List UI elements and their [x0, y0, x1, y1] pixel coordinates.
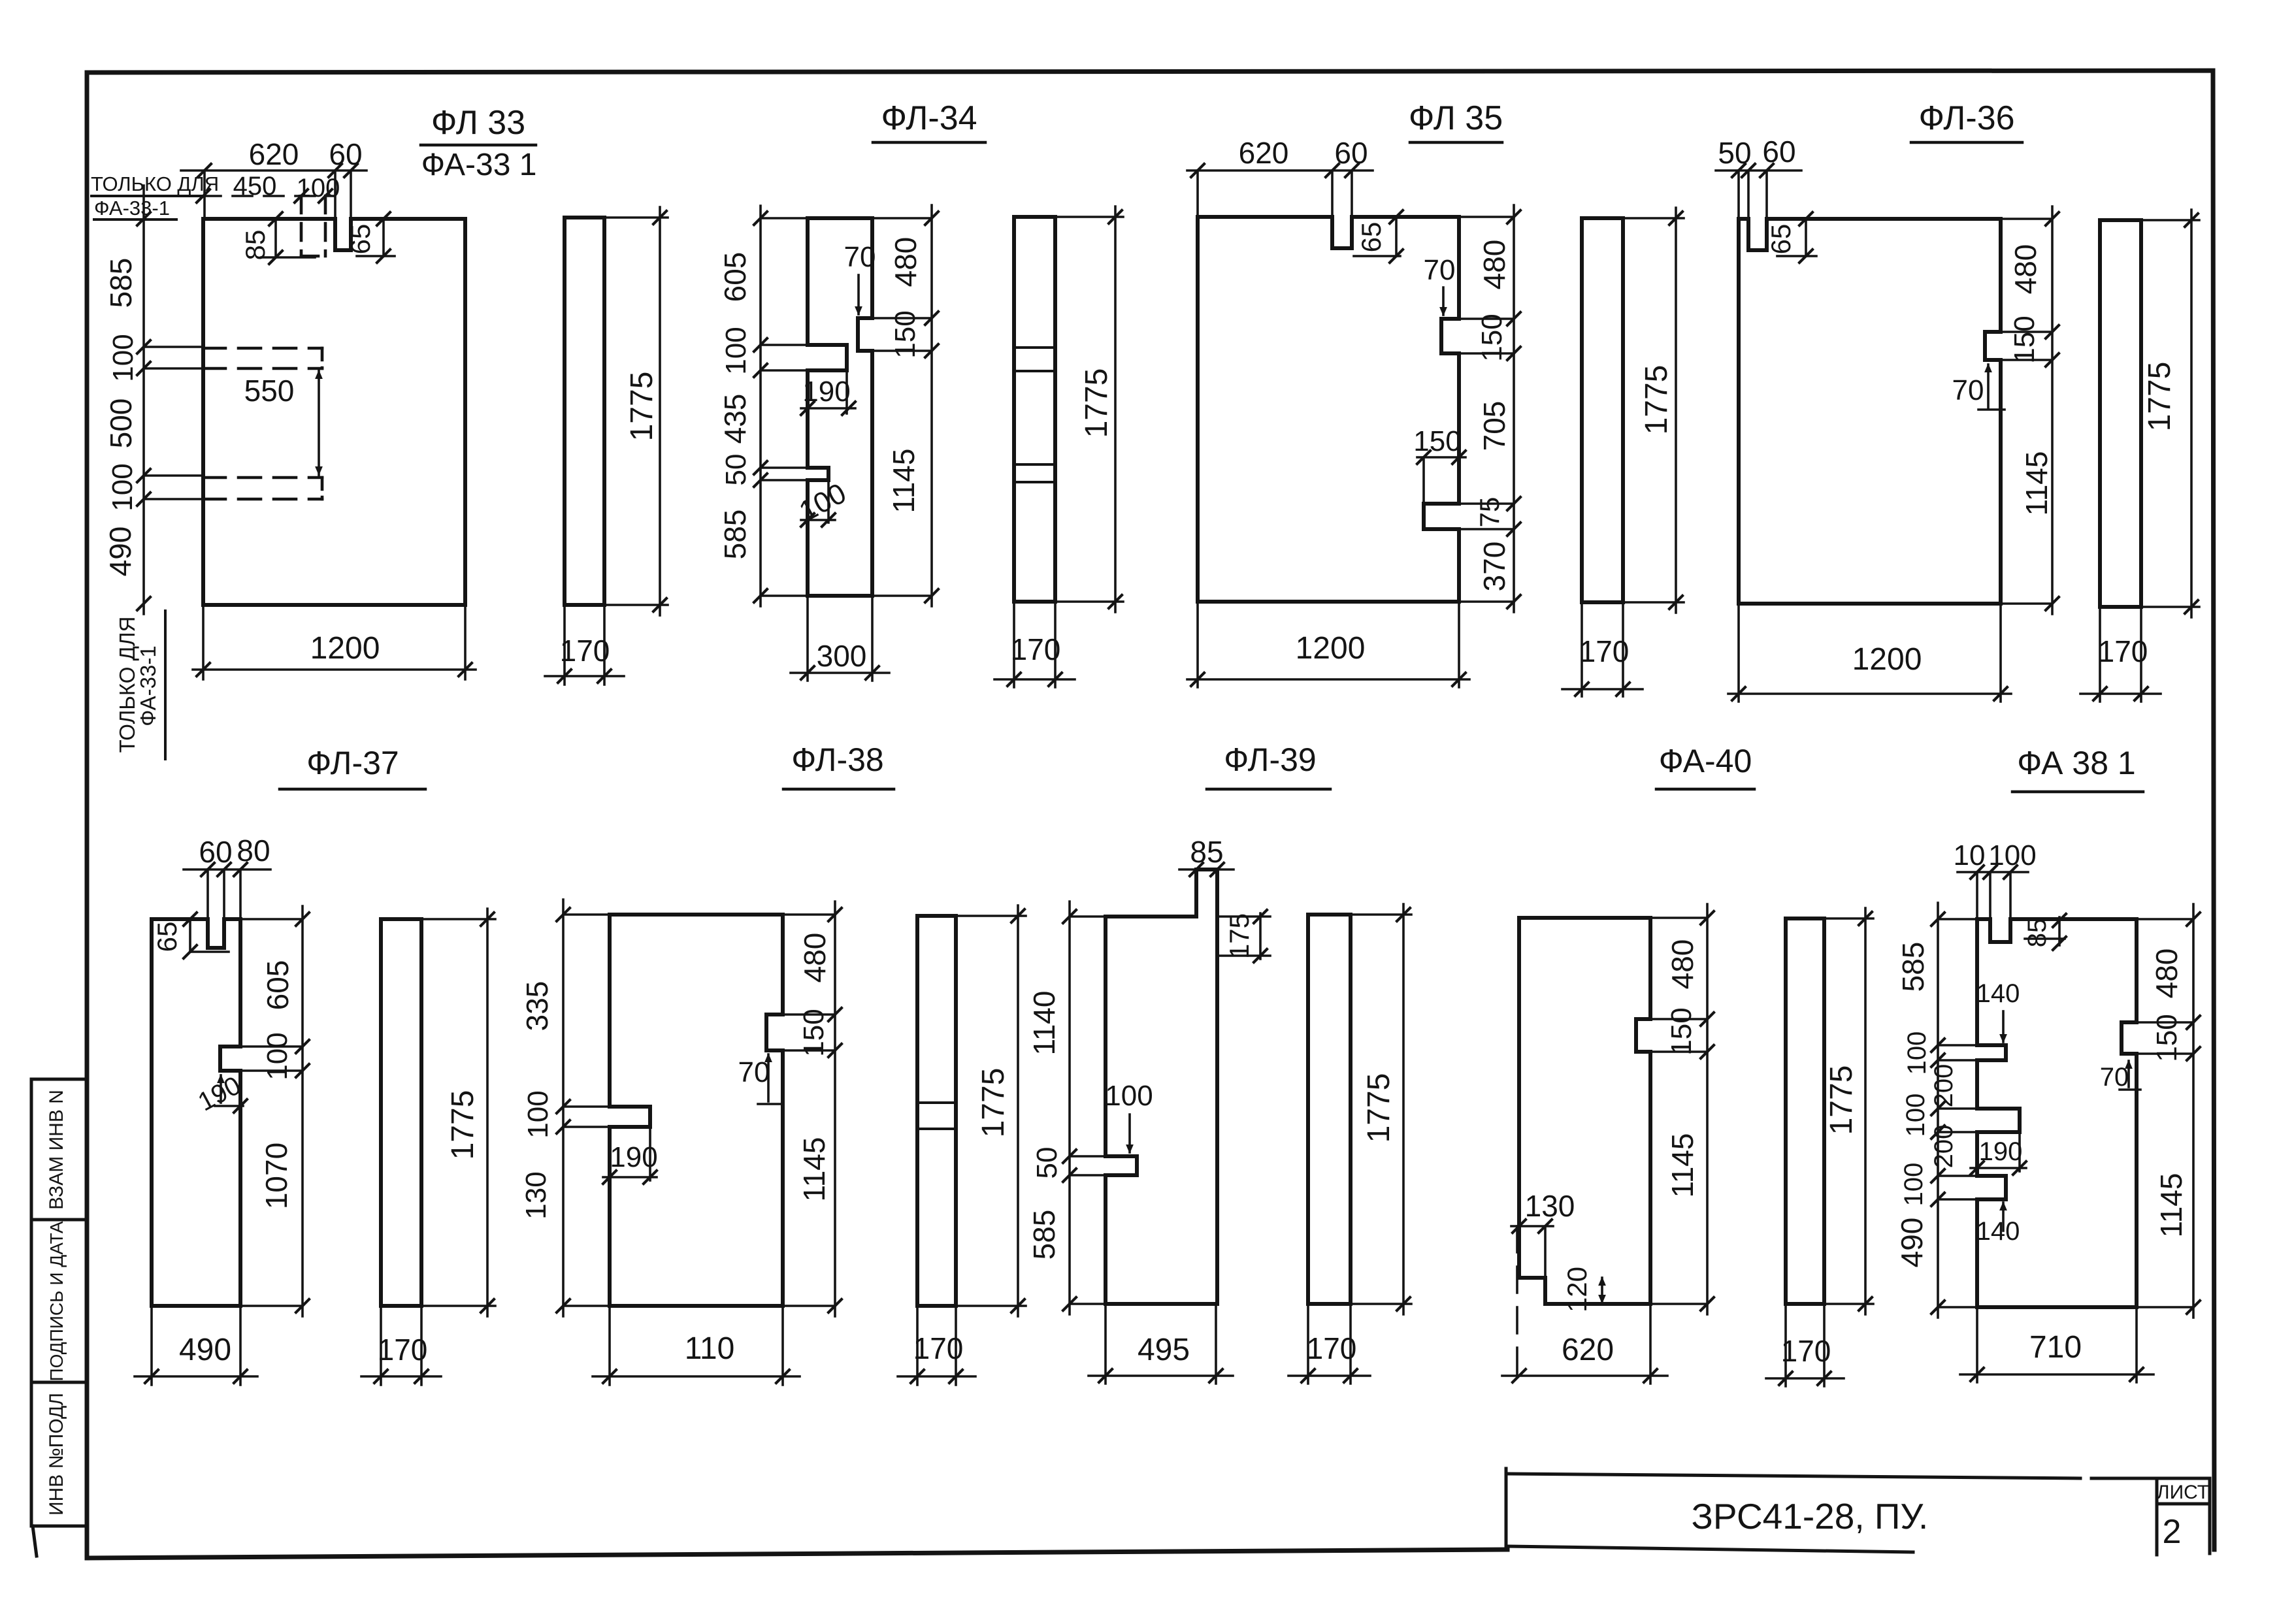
dim text 60 (ФЛ-37) — [199, 835, 232, 869]
dim text 100c (ФА-38-1) — [1899, 1163, 1928, 1207]
dim text 480 (ФА-40) — [1665, 939, 1699, 990]
dim text 10 (ФА-38-1) — [1954, 839, 1986, 871]
panel ФЛ-38 front outline — [610, 915, 783, 1306]
dim 130 (ФА-40 corner step) — [1511, 1189, 1575, 1278]
dim chain right (ФЛ-38): 480/150/1145 — [766, 901, 842, 1316]
svg-text:65: 65 — [1765, 224, 1796, 255]
dim 450/100 line (ФЛ-33) — [197, 189, 335, 203]
svg-text:ФА-33-1: ФА-33-1 — [136, 645, 160, 726]
svg-text:1145: 1145 — [2154, 1173, 2188, 1238]
title ФЛ-37 — [280, 745, 425, 789]
svg-text:300: 300 — [817, 639, 867, 673]
side view of ФЛ-36 — [2100, 220, 2141, 607]
title ФЛ-35 — [1409, 99, 1503, 142]
dim 65 (ФЛ-37) — [152, 913, 229, 958]
dim text 1145 (ФА-38-1) — [2154, 1173, 2188, 1238]
dim 170 (S7) — [1288, 1304, 1370, 1384]
panel ФЛ-39 front outline — [1106, 869, 1217, 1304]
svg-text:100: 100 — [1903, 1031, 1931, 1075]
dim text 1140 (ФЛ-39) — [1027, 991, 1061, 1056]
svg-text:620: 620 — [1239, 136, 1289, 170]
svg-text:ПОДПИСЬ И ДАТА: ПОДПИСЬ И ДАТА — [46, 1221, 67, 1381]
svg-text:100: 100 — [720, 327, 752, 374]
panel ФЛ-33 front outline — [203, 219, 465, 605]
dim text 705 (ФЛ-35) — [1477, 401, 1511, 451]
dim text 480 (ФЛ-35) — [1477, 240, 1511, 290]
dim 110 (ФЛ-38 bottom) — [593, 1306, 800, 1385]
svg-text:75: 75 — [1474, 497, 1505, 528]
dim text 100 (ФЛ-37) — [261, 1032, 293, 1080]
svg-text:100: 100 — [1105, 1080, 1153, 1112]
side view of ФЛ-38 — [917, 916, 956, 1306]
side view of ФЛ-33 (170 wide) — [565, 218, 604, 605]
svg-text:60: 60 — [199, 835, 232, 869]
svg-text:130: 130 — [1525, 1189, 1575, 1223]
dim text 60 (ФЛ-33) — [329, 137, 362, 171]
svg-text:100: 100 — [1899, 1163, 1928, 1207]
svg-text:150: 150 — [1476, 314, 1508, 361]
dim text 605 (ФЛ-37) — [261, 960, 295, 1011]
svg-text:1775: 1775 — [2142, 362, 2177, 432]
svg-text:585: 585 — [1896, 942, 1930, 992]
svg-text:480: 480 — [2150, 949, 2184, 999]
svg-text:100: 100 — [1901, 1094, 1930, 1137]
svg-text:ФЛ 35: ФЛ 35 — [1409, 99, 1503, 137]
svg-text:620: 620 — [1562, 1333, 1614, 1367]
title ФЛ-34 — [873, 99, 985, 142]
dim text 100 (ФА-38-1) — [1988, 839, 2036, 871]
svg-text:500: 500 — [104, 398, 138, 449]
svg-text:170: 170 — [1011, 632, 1061, 666]
svg-text:480: 480 — [889, 237, 923, 287]
svg-text:1775: 1775 — [1639, 365, 1674, 435]
svg-text:480: 480 — [2008, 244, 2042, 295]
dim text 130 (ФЛ-38) — [520, 1171, 552, 1219]
dim chain left (ФЛ-33): 585/100/500/100/490 — [137, 186, 203, 614]
dim 620/60 line (ФЛ-33 top) — [181, 164, 367, 219]
dim chain right (ФЛ-35): 480/150/705/75/370 — [1424, 205, 1520, 612]
dim text 585 (ФА-38-1) — [1896, 942, 1930, 992]
dim 550 between slots (ФЛ-33) — [244, 370, 323, 476]
title ФА-40 — [1656, 743, 1754, 789]
panel ФЛ-35 front outline — [1198, 217, 1459, 602]
dim text 480 (ФЛ-38) — [798, 933, 832, 983]
dim text 435 (ФЛ-34) — [718, 394, 752, 444]
svg-text:70: 70 — [1424, 254, 1456, 286]
title block left tick — [1505, 1469, 1508, 1548]
svg-text:1775: 1775 — [1824, 1065, 1859, 1135]
svg-text:60: 60 — [1334, 136, 1368, 170]
svg-text:150: 150 — [1413, 425, 1461, 457]
panel ФЛ-33 dashed variant notch (ФА-33-1) — [301, 196, 325, 256]
svg-text:ЛИСТ: ЛИСТ — [2157, 1482, 2209, 1503]
svg-text:100: 100 — [1988, 839, 2036, 871]
svg-text:60: 60 — [329, 137, 362, 171]
dim 150 (ФЛ-35 lower notch) — [1413, 425, 1466, 504]
leader 100 (ФЛ-39) — [1105, 1080, 1153, 1154]
svg-text:1775: 1775 — [446, 1090, 480, 1160]
dim text 80 (ФЛ-37) — [237, 834, 270, 868]
dim chain left (ФЛ-39): 1140/50/585 — [1063, 901, 1106, 1314]
dim chain left (ФА-38-1): 585/100/200/100/200/100/490 — [1931, 903, 1977, 1318]
svg-text:ИНВ №ПОДЛ: ИНВ №ПОДЛ — [46, 1393, 67, 1516]
svg-text:170: 170 — [2098, 634, 2148, 668]
dim chain right (ФЛ-36): 480/150/1145 — [1985, 206, 2059, 614]
svg-text:ФЛ-39: ФЛ-39 — [1224, 741, 1316, 778]
dim 10/100 (ФА-38-1 top) — [1958, 866, 2028, 919]
svg-text:170: 170 — [1781, 1334, 1831, 1368]
dim text 490 (ФЛ-33) — [103, 527, 137, 577]
dim 190 (ФЛ-37 notch) — [193, 1071, 247, 1116]
svg-text:170: 170 — [560, 634, 610, 668]
title ФЛ-36 — [1911, 99, 2022, 142]
page bottom border — [87, 1550, 1507, 1558]
dim 65 (ФЛ-35) — [1354, 210, 1403, 263]
sheet number 2 — [2163, 1513, 2182, 1551]
dim 1775 (S2) — [1055, 206, 1123, 612]
dim text 60 (ФЛ-36) — [1762, 135, 1795, 169]
dim text 605 (ФЛ-34) — [718, 252, 752, 302]
leader 70 (ФЛ-36) — [1952, 363, 2005, 410]
dim text 100 (ФЛ-33 band2) — [107, 463, 139, 511]
svg-text:65: 65 — [1356, 222, 1386, 253]
svg-text:585: 585 — [1027, 1210, 1061, 1260]
dim text 150 (ФЛ-34) — [889, 310, 921, 358]
svg-text:ФА 38 1: ФА 38 1 — [2017, 745, 2135, 781]
dim text 490 (ФА-38-1) — [1895, 1218, 1929, 1268]
title block bottom rule — [1508, 1546, 1913, 1552]
svg-text:190: 190 — [610, 1141, 657, 1173]
dim text 335 (ФЛ-38) — [520, 981, 554, 1031]
svg-text:85: 85 — [2023, 918, 2052, 948]
dim 1200 (ФЛ-36 bottom) — [1728, 604, 2011, 702]
dim 190 (ФЛ-34 upper notch) — [801, 370, 855, 415]
panel ФА-38-1 front outline — [1977, 919, 2137, 1307]
svg-text:50: 50 — [720, 454, 752, 486]
svg-text:100: 100 — [107, 463, 139, 511]
svg-text:ФЛ 33: ФЛ 33 — [431, 104, 525, 142]
dim 85 (ФА-38-1) — [2023, 914, 2066, 950]
svg-text:150: 150 — [2008, 316, 2040, 363]
svg-text:490: 490 — [1895, 1218, 1929, 1268]
svg-text:140: 140 — [1976, 979, 2020, 1008]
dim text 100 (ФЛ-33) — [297, 174, 340, 203]
side view of ФЛ-35 — [1582, 218, 1623, 602]
svg-text:1145: 1145 — [2020, 451, 2054, 516]
dim text 585 (ФЛ-39) — [1027, 1210, 1061, 1260]
dim 620 (ФА-40 bottom) — [1502, 1226, 1667, 1384]
dim 490 (ФЛ-37 bottom) — [135, 1306, 257, 1385]
title block top rule — [1508, 1474, 2157, 1478]
svg-text:490: 490 — [179, 1333, 231, 1367]
dim 170 (S8) — [1766, 1304, 1844, 1386]
dim 170 (S1) — [545, 605, 624, 685]
svg-text:1775: 1775 — [625, 372, 659, 442]
title block text ЗРС41-28, ПУ. — [1692, 1496, 1929, 1536]
dim 170 (S2) — [994, 602, 1075, 687]
svg-text:585: 585 — [718, 510, 752, 560]
dim 175 (ФЛ-39) — [1217, 910, 1270, 962]
title ФЛ-38 — [783, 741, 894, 789]
svg-text:1145: 1145 — [797, 1137, 831, 1202]
dim text 75 (ФЛ-35) — [1474, 497, 1505, 528]
svg-text:1200: 1200 — [1296, 631, 1366, 666]
svg-text:80: 80 — [237, 834, 270, 868]
svg-text:70: 70 — [2100, 1063, 2129, 1092]
svg-text:ФЛ-34: ФЛ-34 — [881, 99, 977, 137]
dim 1775 (S7) — [1351, 904, 1411, 1314]
svg-text:170: 170 — [1579, 634, 1630, 668]
svg-text:150: 150 — [1665, 1007, 1697, 1055]
sidebar label ПОДПИСЬ И ДАТА — [46, 1221, 67, 1381]
note ТОЛЬКО ДЛЯ ФА-33-1 (rotated, bottom left) — [115, 611, 165, 759]
dim text 100b (ФА-38-1) — [1901, 1094, 1930, 1137]
dim chain left (ФЛ-34): 605/100/435/50/585 — [754, 206, 808, 606]
dim text 1145 (ФЛ-36) — [2020, 451, 2054, 516]
dim text 480 (ФЛ-36) — [2008, 244, 2042, 295]
dim text 585 (ФЛ-34) — [718, 510, 752, 560]
svg-text:100: 100 — [107, 334, 139, 382]
svg-text:140: 140 — [1976, 1217, 2020, 1246]
svg-text:150: 150 — [798, 1009, 830, 1056]
dim 65 (ФЛ-36) — [1765, 212, 1816, 263]
svg-text:550: 550 — [244, 374, 295, 408]
svg-text:50: 50 — [1031, 1147, 1063, 1179]
svg-text:100: 100 — [297, 174, 340, 203]
svg-text:50: 50 — [1718, 136, 1751, 170]
svg-text:ФЛ-38: ФЛ-38 — [791, 741, 883, 778]
title ФА-38 1 — [2012, 745, 2143, 792]
panel ФЛ-33 dashed slot band 1 — [203, 348, 322, 368]
leader 70 (ФЛ-38) — [738, 1053, 781, 1104]
svg-text:495: 495 — [1138, 1333, 1190, 1367]
dim text 480 (ФЛ-34) — [889, 237, 923, 287]
dim 1775 (S8) — [1824, 908, 1873, 1314]
dim text 60 (ФЛ-35) — [1334, 136, 1368, 170]
dim chain right (ФЛ-37): 605/100/1070 — [220, 906, 309, 1316]
svg-text:480: 480 — [1477, 240, 1511, 290]
panel ФА-40 front outline — [1519, 918, 1650, 1304]
note ТОЛЬКО ДЛЯ ФА-33-1 (top left) — [91, 172, 219, 219]
svg-text:ФЛ-37: ФЛ-37 — [306, 745, 399, 781]
dim 300 (ФЛ-34 bottom) — [791, 596, 889, 681]
leader 70 (ФЛ-35) — [1424, 254, 1456, 316]
svg-text:ВЗАМ ИНВ N: ВЗАМ ИНВ N — [46, 1090, 67, 1210]
svg-text:130: 130 — [520, 1171, 552, 1219]
svg-text:585: 585 — [104, 258, 138, 308]
dim 620/60 (ФЛ-35 top) — [1187, 164, 1373, 217]
leader 70 (ФЛ-34) — [844, 241, 876, 316]
title ФЛ-33 / ФА-33-1 — [421, 104, 536, 182]
svg-text:85: 85 — [1190, 835, 1223, 869]
dim text 150 (ФА-40) — [1665, 1007, 1697, 1055]
dim text 1070 (ФЛ-37) — [259, 1143, 293, 1209]
svg-text:480: 480 — [798, 933, 832, 983]
dim text 150 (ФЛ-35) — [1476, 314, 1508, 361]
dim text 150 (ФЛ-38) — [798, 1009, 830, 1056]
dim 120 (ФА-40 corner step) — [1562, 1267, 1606, 1312]
dim text 100a (ФА-38-1) — [1903, 1031, 1931, 1075]
svg-text:200: 200 — [1929, 1125, 1958, 1169]
dim 495 (ФЛ-39 bottom) — [1089, 1304, 1233, 1384]
dim 190 (ФА-38-1) — [1971, 1132, 2026, 1175]
dim text 50 (ФЛ-34) — [720, 454, 752, 486]
dim 65 (ФЛ-33 notch depth) — [345, 212, 395, 263]
dim text 620 (ФЛ-35) — [1239, 136, 1289, 170]
dim text 585 (ФЛ-33) — [104, 258, 138, 308]
svg-text:200: 200 — [1929, 1064, 1958, 1108]
svg-text:65: 65 — [345, 224, 376, 255]
svg-text:ФА-33 1: ФА-33 1 — [421, 148, 537, 182]
svg-text:65: 65 — [152, 922, 182, 952]
dim chain right (ФА-40): 480/150/1145 — [1636, 904, 1714, 1314]
dim chain right (ФА-38-1): 480/150/1145 — [2122, 904, 2200, 1318]
svg-text:335: 335 — [520, 981, 554, 1031]
svg-text:ФА-33-1: ФА-33-1 — [94, 197, 170, 219]
dim chain right (ФЛ-34): 480/150/1145 — [858, 205, 938, 606]
svg-text:100: 100 — [522, 1090, 554, 1138]
panel ФЛ-33 dashed slot band 2 — [203, 478, 322, 499]
svg-text:10: 10 — [1954, 839, 1986, 871]
svg-text:710: 710 — [2029, 1330, 2082, 1365]
svg-text:705: 705 — [1477, 401, 1511, 451]
dim 1200 (ФЛ-35 bottom) — [1187, 602, 1469, 687]
panel ФЛ-37 front outline — [152, 919, 240, 1306]
dim 1775 (S1) — [604, 207, 668, 615]
svg-text:190: 190 — [802, 376, 850, 408]
dim 1775 (S3) — [1623, 208, 1684, 613]
dim 710 (ФА-38-1 bottom) — [1960, 1307, 2154, 1382]
side view of ФА-40 — [1786, 918, 1824, 1304]
svg-text:1070: 1070 — [259, 1143, 293, 1209]
side view of ФЛ-39 — [1308, 915, 1351, 1304]
svg-text:2: 2 — [2163, 1513, 2182, 1551]
dim 1775 (S4) — [2141, 210, 2199, 617]
svg-text:1200: 1200 — [310, 631, 380, 666]
panel ФЛ-36 front outline — [1739, 219, 2001, 604]
leader 140 bottom (ФА-38-1) — [1976, 1201, 2020, 1246]
svg-text:100: 100 — [261, 1032, 293, 1080]
sheet box label ЛИСТ — [2157, 1482, 2209, 1503]
dim text 100 (ФЛ-33 band1) — [107, 334, 139, 382]
dim text 1145 (ФЛ-34) — [887, 449, 921, 513]
dim text 150 (ФЛ-36) — [2008, 316, 2040, 363]
svg-text:150: 150 — [2151, 1014, 2183, 1062]
svg-text:435: 435 — [718, 394, 752, 444]
panel ФЛ-34 front outline — [808, 218, 872, 596]
sidebar label ВЗАМ ИНВ N — [46, 1090, 67, 1210]
dim 170 (S3) — [1562, 602, 1643, 696]
dim text 100 (ФЛ-38) — [522, 1090, 554, 1138]
dim 50/60 (ФЛ-36 top) — [1716, 164, 1801, 219]
side view ФЛ-38 internal slot lines — [917, 1103, 956, 1129]
svg-text:ФА-40: ФА-40 — [1659, 743, 1752, 779]
svg-text:1145: 1145 — [887, 449, 921, 513]
dim 170 (S6) — [898, 1306, 975, 1385]
svg-text:1775: 1775 — [1079, 368, 1114, 438]
dim 1775 (S6) — [956, 905, 1026, 1316]
leader 140 top (ФА-38-1) — [1976, 979, 2020, 1043]
dim text 50 (ФЛ-36) — [1718, 136, 1751, 170]
leader 70 (ФА-38-1) — [2100, 1060, 2140, 1092]
svg-text:170: 170 — [1307, 1331, 1357, 1365]
svg-text:490: 490 — [103, 527, 137, 577]
side view of ФЛ-37 — [381, 919, 421, 1306]
dim 1200 (ФЛ-33 bottom) — [193, 605, 476, 679]
dim text 100 (ФЛ-34) — [720, 327, 752, 374]
svg-text:ФЛ-36: ФЛ-36 — [1918, 99, 2014, 137]
dim text 480 (ФА-38-1) — [2150, 949, 2184, 999]
dim 85 (ФЛ-33 notch depth) — [240, 212, 315, 264]
dim text 50 (ФЛ-39) — [1031, 1147, 1063, 1179]
sidebar frame — [31, 1079, 87, 1556]
dim 100 (ФЛ-34 lower notch) — [794, 477, 851, 528]
dim text 200b (ФА-38-1) — [1929, 1125, 1958, 1169]
svg-text:120: 120 — [1562, 1267, 1592, 1312]
svg-text:1145: 1145 — [1665, 1133, 1699, 1198]
svg-text:1775: 1775 — [1362, 1073, 1396, 1143]
svg-text:605: 605 — [718, 252, 752, 302]
svg-text:190: 190 — [1979, 1137, 2023, 1166]
svg-text:150: 150 — [889, 310, 921, 358]
svg-text:450: 450 — [233, 172, 277, 201]
svg-text:605: 605 — [261, 960, 295, 1011]
dim chain left (ФЛ-38): 335/100/130 — [557, 900, 610, 1316]
svg-text:ЗРС41-28, ПУ.: ЗРС41-28, ПУ. — [1692, 1496, 1929, 1536]
dim text 500 (ФЛ-33) — [104, 398, 138, 449]
svg-text:170: 170 — [378, 1333, 428, 1367]
sidebar label ИНВ N ПОДЛ — [46, 1393, 67, 1516]
svg-text:60: 60 — [1762, 135, 1795, 169]
svg-text:1200: 1200 — [1852, 642, 1922, 677]
svg-text:85: 85 — [240, 230, 270, 261]
sheet box (ЛИСТ) — [2157, 1478, 2210, 1555]
svg-text:370: 370 — [1477, 542, 1511, 592]
dim text 150 (ФА-38-1) — [2151, 1014, 2183, 1062]
dim 85 (ФЛ-39 tab) — [1179, 835, 1234, 876]
side view ФЛ-34 internal slot lines — [1014, 348, 1055, 482]
svg-text:480: 480 — [1665, 939, 1699, 990]
svg-text:175: 175 — [1224, 913, 1254, 959]
svg-text:1775: 1775 — [976, 1068, 1011, 1138]
svg-text:620: 620 — [249, 137, 299, 171]
side view of ФЛ-34 — [1014, 217, 1055, 602]
dim text 1145 (ФА-40) — [1665, 1133, 1699, 1198]
dim 170 (S5) — [361, 1306, 441, 1385]
dim 1775 (S5) — [421, 909, 495, 1316]
dim 60/80 (ФЛ-37 top) — [184, 863, 270, 919]
dim 170 (S4) — [2080, 607, 2161, 702]
svg-text:1140: 1140 — [1027, 991, 1061, 1056]
dim 190 (ФЛ-38 notch) — [603, 1127, 658, 1184]
title ФЛ-39 — [1207, 741, 1330, 789]
dim text 450 (ФЛ-33) — [233, 172, 277, 201]
svg-text:110: 110 — [685, 1331, 735, 1366]
dim text 370 (ФЛ-35) — [1477, 542, 1511, 592]
svg-text:170: 170 — [913, 1331, 964, 1365]
dim text 1145 (ФЛ-38) — [797, 1137, 831, 1202]
dim text 200a (ФА-38-1) — [1929, 1064, 1958, 1108]
svg-text:70: 70 — [1952, 374, 1984, 406]
dim text 620 (ФЛ-33) — [249, 137, 299, 171]
svg-text:70: 70 — [844, 241, 876, 273]
